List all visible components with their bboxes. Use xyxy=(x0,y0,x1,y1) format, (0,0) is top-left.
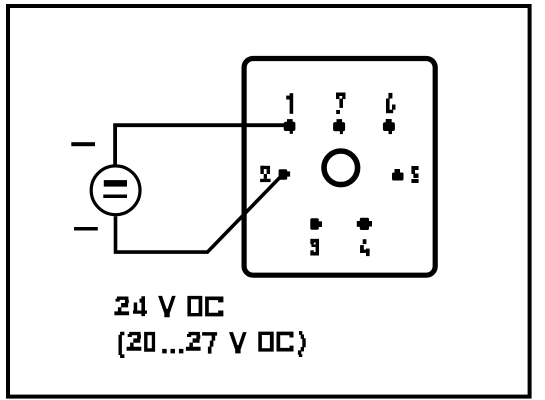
pin 3 contact dot xyxy=(310,218,322,230)
wire from DC source plus to pin 1 xyxy=(115,125,287,165)
polarity minus sign (top) xyxy=(71,142,95,146)
pin 6 label xyxy=(386,93,396,113)
label (20...27 V DC) xyxy=(119,331,306,358)
glyph ) xyxy=(298,331,306,357)
glyph D xyxy=(187,296,202,317)
pin 5 label xyxy=(411,166,418,183)
glyph 4 xyxy=(133,296,147,316)
pin 5 contact dot xyxy=(392,169,404,181)
glyph V xyxy=(158,296,176,317)
glyph D xyxy=(258,332,273,352)
glyph C xyxy=(205,297,223,317)
relay socket outline xyxy=(244,59,435,276)
ellipsis dots xyxy=(162,349,183,354)
glyph ( xyxy=(119,332,125,358)
pin 4 contact dot xyxy=(357,218,372,230)
DC voltage source xyxy=(91,166,140,215)
glyph 2 xyxy=(114,297,129,316)
pin 7 contact dot xyxy=(333,119,345,134)
pin 1 contact dot xyxy=(284,119,296,134)
glyph 7 xyxy=(202,332,217,354)
glyph V xyxy=(229,332,247,353)
pin 4 label xyxy=(360,239,370,256)
glyph 2 xyxy=(186,332,201,351)
glyph C xyxy=(277,332,294,352)
polarity minus sign (bottom) xyxy=(74,227,98,231)
pin 3 label xyxy=(310,239,319,256)
pin 2 contact dot xyxy=(279,169,291,180)
pin 6 contact dot xyxy=(383,119,395,134)
glyph 2 xyxy=(127,332,142,351)
pin 7 label xyxy=(336,93,346,115)
label 24 V DC xyxy=(114,296,223,317)
center keying hole xyxy=(324,151,358,185)
pin 2 label xyxy=(260,166,271,182)
wire from DC source minus to pin 2 (with diagonal) xyxy=(116,175,283,253)
pin 1 label xyxy=(286,93,293,114)
glyph 0 xyxy=(144,332,155,352)
